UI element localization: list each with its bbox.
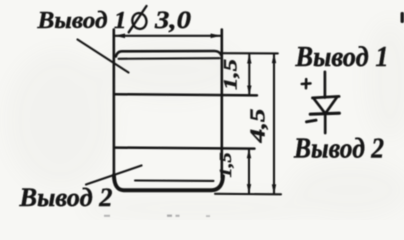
svg-text:Вывод 1: Вывод 1 (295, 42, 389, 73)
svg-text:1,5: 1,5 (221, 58, 242, 90)
svg-text:Вывод 2: Вывод 2 (293, 133, 384, 165)
diode VD1 anode triangle (313, 96, 340, 113)
body top cap outer line (116, 51, 222, 57)
diode VD1 cathode bar (310, 113, 339, 114)
svg-text:1,5: 1,5 (216, 153, 235, 178)
diode VD1 top lead wire (324, 72, 327, 98)
body left edge / extension line (113, 30, 116, 178)
dimension line 1,5 (bottom) (248, 149, 250, 193)
leader line from Вывод 2 to bottom cap (86, 166, 142, 185)
leader line from Вывод 1 to top cap (78, 40, 129, 73)
svg-text:3,0: 3,0 (154, 7, 192, 34)
plus polarity mark (302, 79, 311, 88)
diode VD1 bottom lead wire (324, 113, 327, 134)
body top cap inner line (119, 57, 220, 60)
body right edge / extension line (221, 30, 224, 178)
dimension line 4,5 (273, 54, 275, 194)
band line lower (cap boundary) + extension (115, 148, 255, 149)
body bottom cap inner line (135, 179, 214, 181)
body bottom rim (thick outer contour) (114, 175, 223, 190)
svg-text:Вывод 2: Вывод 2 (18, 183, 112, 212)
bottom extension line (215, 193, 281, 196)
dimension line 3,0 (114, 35, 221, 37)
minus polarity mark (307, 120, 317, 122)
diameter symbol (129, 6, 148, 32)
band line upper (cap boundary) + extension (115, 94, 258, 95)
dimension line 1,5 (top) (248, 55, 250, 95)
top extension line (222, 52, 278, 54)
svg-text:4,5: 4,5 (246, 109, 270, 144)
